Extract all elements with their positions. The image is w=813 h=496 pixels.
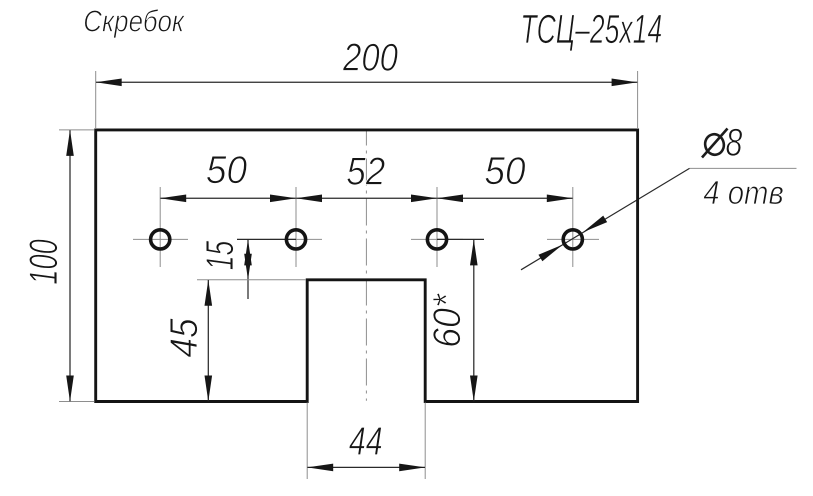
hole H3 bbox=[427, 230, 446, 249]
dim 200 extension lines bbox=[95, 71, 97, 129]
svg-text:4 отв: 4 отв bbox=[703, 174, 784, 211]
leader line to holes note bbox=[521, 168, 690, 269]
svg-text:ТСЦ–25х14: ТСЦ–25х14 bbox=[520, 7, 662, 52]
hole H2 bbox=[286, 230, 305, 249]
part outline bbox=[96, 130, 638, 402]
leader shelf bbox=[690, 167, 797, 169]
dim 15 extension line (to hole H2 centre) bbox=[237, 238, 296, 240]
dim 50 right line bbox=[437, 197, 572, 199]
dim 100 extension lines bbox=[59, 129, 95, 131]
dim 50 left line bbox=[160, 197, 295, 199]
dim 44 extension lines bbox=[306, 403, 308, 480]
svg-text:50: 50 bbox=[484, 150, 525, 193]
hole H1 centerlines bbox=[133, 238, 188, 240]
diameter symbol bbox=[702, 129, 728, 158]
svg-text:50: 50 bbox=[206, 149, 247, 192]
svg-text:15: 15 bbox=[199, 240, 242, 270]
hole H4 centerlines bbox=[547, 238, 599, 240]
svg-text:8: 8 bbox=[726, 121, 743, 164]
svg-text:100: 100 bbox=[22, 239, 66, 284]
svg-text:44: 44 bbox=[349, 418, 383, 463]
dim 60 line bbox=[473, 240, 475, 402]
hole H3 centerlines bbox=[411, 238, 463, 240]
dim 60 extension line (from hole H3 centre) bbox=[437, 238, 484, 240]
dim 52 line bbox=[296, 197, 437, 199]
dim 15 line bbox=[247, 239, 249, 299]
hole H1 bbox=[151, 230, 170, 249]
svg-text:60*: 60* bbox=[425, 293, 469, 348]
hole H4 bbox=[563, 230, 582, 249]
leader arrow upper bbox=[581, 216, 607, 236]
centerline vertical (plate axis) bbox=[365, 131, 367, 401]
slot top extension line bbox=[197, 279, 306, 281]
dim 45 line bbox=[207, 280, 209, 401]
svg-text:52: 52 bbox=[346, 149, 385, 193]
dim 200 line bbox=[96, 81, 637, 83]
hole H2 centerlines bbox=[270, 238, 322, 240]
dim 100 line bbox=[69, 130, 71, 401]
svg-text:Скребок: Скребок bbox=[83, 4, 185, 39]
svg-text:45: 45 bbox=[161, 318, 205, 358]
leader arrow lower bbox=[538, 241, 564, 261]
svg-text:200: 200 bbox=[342, 35, 398, 79]
dim 44 line bbox=[307, 466, 425, 468]
